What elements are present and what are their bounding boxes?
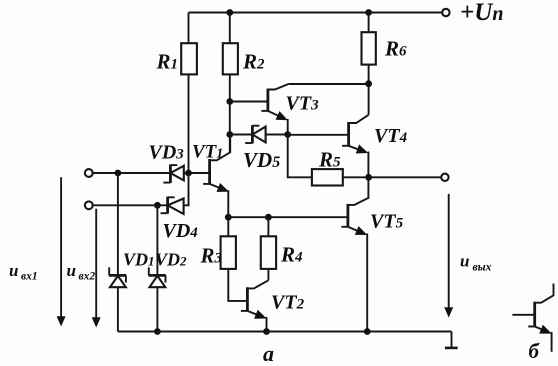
svg-text:u: u <box>67 261 76 280</box>
resistor R5 <box>312 169 343 185</box>
resistor R3 <box>221 236 236 269</box>
wire R2 bottom down to VT1 collector <box>229 74 231 152</box>
arrow u_vyh <box>448 194 450 309</box>
wire top supply rail <box>189 12 443 14</box>
wire VT5 base from R3/R4 row <box>228 216 348 218</box>
wire output <box>369 176 442 178</box>
transistor VT4 <box>342 115 407 178</box>
node VT1 base / R1 / VD4 <box>185 170 192 177</box>
node R2 / VT3 base <box>226 98 233 105</box>
resistor R4 <box>261 236 276 269</box>
wire R4 bottom to VT2 collector <box>267 269 269 280</box>
wire R3 bottom to VT2 base <box>228 269 247 301</box>
transistor VT3 <box>261 84 319 135</box>
diode VD5 <box>243 125 288 172</box>
wire input2 to VD4 <box>93 204 168 206</box>
node input2 / VD2 <box>154 202 161 209</box>
transistor VT2 <box>241 280 305 331</box>
arrow u_vx2 <box>95 209 97 319</box>
node VD5 / VT3 emitter / VT4 base / R5 <box>284 131 291 138</box>
diode VD3 <box>149 142 185 184</box>
node R3 / VT1 emitter <box>225 214 232 221</box>
terminal input 1 <box>85 169 93 177</box>
wire R4 top <box>267 217 269 236</box>
node R6 / VT3 collector <box>365 80 372 87</box>
svg-text:б: б <box>529 339 541 363</box>
wire VD3 to VT1 base <box>184 172 210 174</box>
svg-text:u: u <box>9 261 18 280</box>
wire R1 top <box>188 13 190 44</box>
diode VD2 <box>149 250 188 332</box>
svg-text:u: u <box>460 252 469 271</box>
wire R5 right branch <box>343 176 369 178</box>
node output / VT4 emitter / VT5 collector / R5 <box>365 174 372 181</box>
wire VD4 anode up to VT1 base node <box>184 173 189 205</box>
node rail / VD2 <box>154 328 161 335</box>
wire R1 bottom to VT1 base node <box>188 74 190 173</box>
resistor R2 <box>223 43 238 74</box>
transistor b (inset) <box>512 284 553 352</box>
resistor R6 <box>362 32 376 64</box>
node VD5 row / R2 line <box>226 131 233 138</box>
arrow u_vx1 <box>60 177 62 317</box>
diode VD4 <box>161 197 199 242</box>
ground <box>451 332 453 348</box>
node input1 / VD1 <box>115 170 122 177</box>
node top rail / R2 <box>226 9 233 16</box>
wire R5 left branch <box>288 135 312 178</box>
node rail / VT2 emitter <box>263 328 270 335</box>
diode VD1 <box>109 250 155 332</box>
svg-text:вых: вых <box>473 262 492 274</box>
wire R6 bottom down to VT4 collector <box>368 65 370 115</box>
transistor VT1 <box>192 135 230 218</box>
wire VT4 base <box>288 134 349 136</box>
node top rail / R6 <box>365 9 372 16</box>
svg-text:а: а <box>263 341 274 366</box>
svg-text:+Un: +Un <box>460 0 503 26</box>
terminal output <box>441 174 448 181</box>
transistor VT5 <box>341 177 403 331</box>
resistor R1 <box>181 43 197 74</box>
wire VD1 branch <box>117 173 119 275</box>
terminal +Un <box>442 9 449 16</box>
wire VT3 collector to R6 node <box>288 83 368 85</box>
wire R3 top <box>227 217 229 236</box>
wire VD2 branch <box>156 205 158 275</box>
wire node to VD5 cathode <box>230 134 253 136</box>
node rail / VT5 emitter <box>364 328 371 335</box>
wire VT3 base <box>230 101 268 103</box>
svg-text:вх1: вх1 <box>21 271 38 283</box>
wire R6 top <box>368 13 370 33</box>
wire R2 top <box>229 13 231 44</box>
wire input1 to VD3 <box>93 172 171 174</box>
node R4 <box>265 214 272 221</box>
terminal input 2 <box>85 201 93 209</box>
svg-text:вх2: вх2 <box>79 271 96 283</box>
wire bottom rail <box>118 331 452 333</box>
